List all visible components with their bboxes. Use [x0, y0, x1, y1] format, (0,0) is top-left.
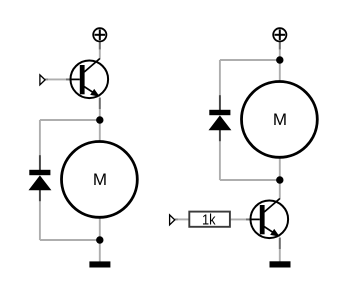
node D junction dot [276, 176, 283, 183]
svg-text:1k: 1k [202, 211, 216, 228]
pin stub: Q2 emitter lead [279, 238, 281, 250]
resistor R1 1k [189, 211, 230, 228]
wire: resistor R1 to Q2 base [231, 218, 250, 220]
wire: motor M2 bottom to node D [279, 157, 281, 180]
pin stub: Q2 base lead [246, 218, 250, 220]
input arrow left [40, 75, 45, 85]
wire: node C left to diode D2 branch [220, 59, 280, 61]
wire: diode D1 branch top vertical [39, 120, 41, 170]
pin stub: Q1 base lead [66, 78, 70, 80]
node C junction dot [276, 56, 283, 63]
pin stub: left input arrow lead [45, 78, 48, 80]
power +V left [93, 28, 106, 41]
wire: diode D2 branch bottom horizontal to node D [220, 179, 280, 181]
svg-text:M: M [93, 170, 107, 189]
ground left [89, 261, 110, 267]
transistor Q2 [250, 199, 289, 239]
wire: diode D1 branch bottom horizontal to node B [40, 239, 100, 241]
pin stub: Q1 emitter lead [99, 98, 101, 110]
pin stub: diode D1 top lead [39, 155, 41, 170]
motor M2 [242, 82, 318, 158]
pin stub: right power lead [279, 42, 281, 49]
motor M1 [62, 142, 138, 218]
wire: node A to motor M1 top [99, 120, 101, 142]
pin stub: diode D2 bottom lead [219, 130, 221, 141]
wire: Q2 emitter to ground [279, 238, 281, 262]
wire: diode D1 branch bottom vertical [39, 190, 41, 240]
power +V right [273, 28, 286, 41]
input arrow right [170, 215, 175, 225]
wire: motor M1 bottom to node B [99, 217, 101, 240]
pin stub: left power lead [99, 42, 101, 49]
pin stub: diode D1 bottom lead [39, 190, 41, 201]
svg-text:M: M [273, 110, 287, 129]
wire: node B to ground [99, 240, 101, 262]
pin stub: diode D2 top lead [219, 95, 221, 110]
wire: diode D2 branch top vertical [219, 60, 221, 110]
pin stub: right input arrow lead [175, 218, 178, 220]
node A junction dot [96, 116, 103, 123]
wire: diode D2 branch bottom vertical [219, 130, 221, 180]
diode D1 [29, 170, 52, 191]
wire: node D to Q2 collector [279, 180, 281, 199]
wire: left power to Q1 collector [99, 42, 101, 59]
wire: right input arrow to resistor R1 [175, 218, 189, 220]
transistor Q1 [70, 59, 109, 99]
wire: right power down to motor M2 top [279, 42, 281, 82]
node B junction dot [96, 236, 103, 243]
wire: Q1 emitter to node A [99, 98, 101, 121]
wire: left input to Q1 base [45, 78, 70, 80]
ground right [270, 261, 291, 267]
wire: node A left to diode D1 branch [40, 119, 100, 121]
diode D2 [209, 110, 232, 131]
